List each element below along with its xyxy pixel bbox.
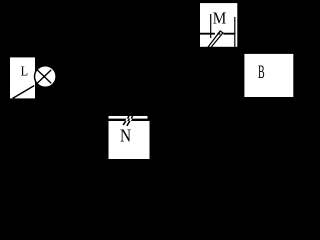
lamp L patch (10, 57, 35, 98)
switch N patch (109, 116, 150, 159)
label B (258, 62, 265, 83)
wire at lamp L (13, 86, 35, 99)
label M (213, 9, 227, 28)
svg-text:N: N (120, 125, 131, 145)
switch M left post (210, 14, 212, 38)
switch N break slash 1 (123, 116, 129, 125)
switch N right stub (148, 116, 150, 121)
wire at switch M (200, 33, 235, 35)
label N (120, 125, 131, 145)
label L (21, 63, 29, 79)
switch M patch (200, 3, 237, 47)
switch M right post (234, 17, 236, 47)
lamp L cross (37, 70, 51, 83)
wire at switch N (109, 119, 150, 121)
svg-text:L: L (21, 63, 29, 79)
lamp L bulb circle (35, 66, 57, 88)
svg-text:M: M (213, 9, 227, 28)
switch M blade (208, 31, 223, 48)
svg-text:B: B (258, 62, 265, 83)
switch N break slash 2 (127, 116, 133, 126)
bell B patch (244, 54, 293, 97)
switch N break slash crossings (126, 119, 131, 121)
